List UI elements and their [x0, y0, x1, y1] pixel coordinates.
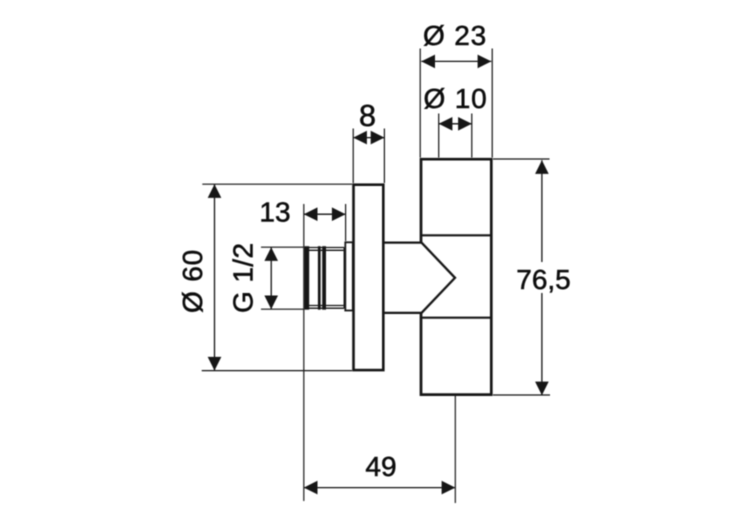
- dim 8 line: [353, 137, 384, 139]
- dim Ø23 line: [421, 60, 491, 62]
- valve body outline: [421, 159, 491, 394]
- G1/2 arrows: [264, 247, 278, 261]
- dim 76,5 extension lines: [493, 158, 550, 160]
- thread G 1/2 outline: [306, 248, 344, 309]
- body internal line upper: [421, 234, 491, 236]
- chevron (valve seat): [422, 243, 456, 313]
- svg-text:76,5: 76,5: [516, 264, 571, 295]
- arrowheads: [208, 55, 549, 495]
- dim 49 line: [304, 487, 456, 489]
- svg-text:13: 13: [259, 197, 290, 228]
- 76,5 arrows: [535, 160, 549, 174]
- dim Ø10 tick lines: [438, 114, 440, 158]
- dim 76,5 line (gap at text): [541, 160, 543, 262]
- dim Ø60 line: [214, 184, 216, 370]
- svg-text:Ø 23: Ø 23: [423, 20, 487, 51]
- svg-text:Ø 10: Ø 10: [424, 83, 488, 114]
- svg-text:49: 49: [365, 451, 396, 482]
- svg-text:Ø 60: Ø 60: [177, 249, 208, 313]
- svg-text:8: 8: [359, 99, 376, 133]
- neck top line: [383, 241, 422, 243]
- dim 13 right tick: [345, 204, 347, 241]
- dim 8 tick lines: [352, 129, 354, 184]
- dim 13 line: [304, 213, 346, 215]
- svg-text:G 1/2: G 1/2: [228, 243, 259, 313]
- dim Ø60 extension lines: [202, 183, 352, 185]
- 49 arrows: [304, 481, 318, 495]
- dim Ø10 line: [439, 123, 472, 125]
- dim G1/2 line: [270, 247, 272, 309]
- flange (wall rosette): [354, 185, 384, 370]
- Ø10 arrows: [439, 117, 453, 131]
- neck bottom line: [383, 312, 422, 314]
- Ø60 arrows: [208, 184, 222, 198]
- inlet centerline: [303, 204, 305, 501]
- washer between thread and flange: [345, 242, 353, 310]
- Ø23 arrows: [421, 55, 435, 69]
- outlet centerline: [454, 395, 456, 503]
- body internal line lower: [421, 317, 491, 319]
- 8 arrows: [353, 131, 367, 145]
- thread thick bars: [304, 246, 326, 310]
- dim G1/2 extension lines: [261, 246, 304, 248]
- dim Ø23 extension lines: [419, 49, 421, 158]
- 13 arrows: [304, 207, 318, 221]
